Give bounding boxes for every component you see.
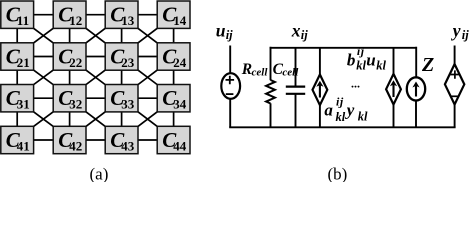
svg-text:u: u [216,20,226,40]
wire: diagonal link C12-C23 [85,27,107,43]
wire: diagonal link C12-C21 [32,27,54,43]
svg-text:cell: cell [252,66,269,78]
wire: rail down to b-source [393,48,395,75]
dependent voltage source y_ij (diamond, +/-) [445,64,464,104]
wire: rail down to R_cell [270,47,272,80]
wire: diagonal link C34-C43 [137,111,159,127]
wire: R_cell to ground rail [270,103,272,127]
cell C33 [105,85,138,112]
wire: diagonal link C33-C44 [137,111,159,127]
svg-text:a: a [324,101,333,120]
wire: diagonal link C23-C32 [85,69,107,85]
wire: vertical link C34-C44 [173,111,175,127]
svg-text:kl: kl [356,58,366,72]
wire: rail down to C_cell [295,48,297,87]
wire: a-source to ground rail [319,105,321,128]
svg-text:y: y [451,20,461,40]
wire: diagonal link C23-C34 [137,69,159,85]
wire: diagonal link C13-C22 [85,27,107,43]
svg-text:x: x [291,20,301,40]
svg-text:ij: ij [336,94,344,108]
svg-text:12: 12 [69,13,82,28]
dependent current source a_kl^ij y_kl (diamond, up arrow) [313,75,328,106]
wire: vertical link C11-C21 [16,27,18,43]
svg-text:32: 32 [69,97,82,112]
svg-text:22: 22 [69,55,82,70]
cell C22 [53,43,86,70]
wire: diagonal link C13-C24 [137,27,159,43]
wire: C_cell to ground rail [295,94,297,128]
wire: diagonal link C22-C33 [85,69,107,85]
wire: horizontal link C22-C23 [85,56,106,58]
wire: rail down to a-source [319,48,321,75]
wire: horizontal link C11-C12 [33,14,55,16]
wire: u source bottom to ground rail [229,98,231,127]
wire: horizontal link C13-C14 [137,14,158,16]
svg-text:y: y [345,101,355,120]
svg-text:14: 14 [173,13,187,28]
svg-text:u: u [366,51,375,70]
wire: horizontal link C31-C32 [33,97,55,99]
cell C23 [105,43,138,70]
wire: vertical link C23-C33 [121,69,123,85]
cell C41 [1,126,34,153]
cell C32 [53,85,86,112]
wire: vertical link C14-C24 [173,27,175,43]
dependent current source b_kl^ij u_kl (diamond, up arrow) [386,74,401,105]
svg-text:11: 11 [17,13,29,28]
svg-text:42: 42 [69,138,82,153]
svg-text:34: 34 [173,97,187,112]
cell C11 [1,1,34,28]
current source Z (circle, up arrow) [407,77,425,100]
svg-text:kl: kl [376,58,386,72]
svg-text:31: 31 [17,97,30,112]
wire: output source to ground rail [454,104,456,127]
wire: diagonal link C14-C23 [137,27,159,43]
svg-text:(b): (b) [328,165,348,183]
svg-text:(a): (a) [90,165,109,183]
svg-text:···: ··· [351,80,360,94]
wire: horizontal link C41-C42 [33,139,55,141]
svg-text:cell: cell [282,66,299,78]
svg-text:ij: ij [301,28,308,42]
cell C12 [53,1,86,28]
svg-text:Z: Z [421,54,434,76]
cell C42 [53,126,86,153]
wire: diagonal link C33-C42 [85,111,107,127]
wire: diagonal link C32-C43 [85,111,107,127]
cell C44 [157,126,190,153]
svg-text:kl: kl [336,110,346,124]
svg-text:21: 21 [17,55,30,70]
cell C31 [1,85,34,112]
cell C43 [105,126,138,153]
wire: horizontal link C32-C33 [85,97,106,99]
svg-text:41: 41 [17,138,30,153]
wire: vertical link C31-C41 [16,111,18,127]
wire: vertical link C32-C42 [69,111,71,127]
wire: Z source to ground rail [415,100,417,127]
wire: vertical link C33-C43 [121,111,123,127]
wire: diagonal link C24-C33 [137,69,159,85]
voltage source u_ij [221,73,240,99]
wire: horizontal link C42-C43 [85,139,106,141]
svg-text:R: R [241,61,252,78]
wire: vertical link C12-C22 [69,27,71,43]
wire: diagonal link C22-C31 [32,69,54,85]
wire: b-source to ground rail [393,104,395,127]
svg-text:13: 13 [121,13,135,28]
wire: horizontal link C21-C22 [33,56,55,58]
svg-text:ij: ij [357,44,365,58]
capacitor C_cell [286,87,305,94]
wire: diagonal link C31-C42 [32,111,54,127]
svg-text:43: 43 [121,138,135,153]
wire: rail corner down to Z source [415,47,417,78]
cell C24 [157,43,190,70]
cell C14 [157,1,190,28]
svg-text:ij: ij [226,28,233,42]
cell C21 [1,43,34,70]
wire: diagonal link C11-C22 [32,27,54,43]
svg-text:ij: ij [462,28,469,42]
wire: y_ij terminal down to output source [454,46,456,65]
svg-text:kl: kl [358,110,368,124]
wire: horizontal link C33-C34 [137,97,158,99]
resistor R_cell [266,80,275,103]
wire: horizontal link C23-C24 [137,56,158,58]
wire: ground rail (bottom) [229,126,455,128]
wire: vertical link C24-C34 [173,69,175,85]
wire: vertical link C13-C23 [121,27,123,43]
cell C13 [105,1,138,28]
svg-text:b: b [347,51,356,70]
wire: top rail (node x_ij) [270,47,417,49]
svg-text:33: 33 [121,97,135,112]
svg-text:24: 24 [173,55,187,70]
wire: horizontal link C12-C13 [85,14,106,16]
svg-text:44: 44 [173,138,187,153]
wire: vertical link C22-C32 [69,69,71,85]
cell C34 [157,85,190,112]
wire: diagonal link C32-C41 [32,111,54,127]
wire: horizontal link C43-C44 [137,139,158,141]
wire: u_ij terminal to source top [229,46,231,74]
svg-text:23: 23 [121,55,135,70]
wire: diagonal link C21-C32 [32,69,54,85]
wire: vertical link C21-C31 [16,69,18,85]
